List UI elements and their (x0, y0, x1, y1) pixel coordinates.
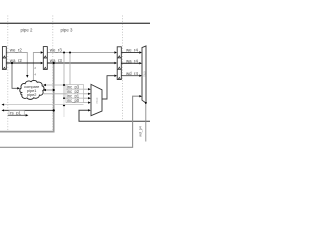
wire inc_p0 (66, 102, 88, 104)
arrow into mux2 inc_p1 (88, 97, 91, 99)
arrow into cloud right y85 (43, 84, 46, 86)
arrow into mux1 wa (139, 62, 142, 64)
svg-text:we_r2: we_r2 (10, 47, 23, 52)
svg-text:we_r3: we_r3 (50, 47, 63, 52)
arrow into mux2 inc_p2 (88, 93, 91, 95)
arrow into mux2 inc_p3 (88, 88, 91, 90)
stage boundary dashed line pipe4 (122, 16, 124, 120)
register R3 (43, 47, 47, 70)
label box inc_p1 (66, 94, 84, 98)
arrow into cloud left (17, 87, 20, 89)
junction dot x64 y85 (63, 84, 65, 86)
arrow into cloud right y90 (43, 89, 46, 91)
svg-text:wd_r4: wd_r4 (126, 71, 139, 76)
wire rs_p1 (8, 114, 26, 116)
svg-text:pipe2: pipe2 (27, 92, 37, 97)
label box inc_p0 (66, 98, 84, 102)
svg-text:we_r4: we_r4 (126, 47, 139, 52)
arrow out left y110.4 (2, 109, 5, 111)
svg-text:wa_r2: wa_r2 (10, 58, 23, 63)
wire we_r3 (R3 to R4) (47, 52, 114, 54)
arrow into R3 wa (41, 62, 44, 64)
arrow into R4 wa (114, 62, 117, 64)
wire we to R3 (from cloud riser) (33, 53, 40, 81)
svg-text:pipe 3: pipe 3 (61, 28, 74, 33)
arrow into mux1 y96.2 (139, 95, 142, 97)
arrow into mux1 we (139, 51, 142, 53)
mux1 (142, 46, 146, 103)
wire wa_r2 (R2 to R3) (6, 62, 40, 64)
junction dot x64 top (63, 52, 65, 54)
register R4 (117, 47, 121, 80)
svg-text:wa_r3: wa_r3 (50, 58, 63, 63)
wire wd return (right edge into mux2 bottom) (79, 110, 150, 121)
wire x64 faint continuation (63, 98, 65, 117)
arrow out left y104.6 (2, 104, 5, 106)
svg-text:inc_p0: inc_p0 (67, 98, 80, 103)
label box inc_p3 (66, 85, 84, 90)
arrow into R3 we (41, 51, 44, 53)
wire we_r3 to compare cloud right (46, 84, 66, 86)
wire wa_r4 to mux1 (121, 62, 139, 64)
arrow into R4 wd (114, 75, 117, 77)
junction dot x64 y105.2 (63, 104, 65, 106)
label box inc_p2 (66, 89, 84, 94)
wire we_r3 vertical tap x64 into inc_p1 (64, 53, 88, 99)
wire wa_r3 to compare cloud right (46, 89, 54, 91)
arrow into R4 we (114, 51, 117, 53)
svg-text:rs_p1: rs_p1 (10, 111, 22, 116)
svg-text:pipe 2: pipe 2 (21, 28, 34, 33)
arrow into mux2 inc_p0 (88, 101, 91, 103)
wire mux1 output down (wd_p4) (145, 104, 147, 142)
wire wa writeback to left edge (4, 109, 54, 111)
register R2 (2, 47, 6, 70)
wire select faint (to mux2) (4, 104, 83, 106)
junction dot x64 y98.2 (63, 97, 65, 99)
wire we_r4 to mux1 (121, 52, 139, 54)
mux2 (91, 84, 102, 115)
wire wa_r3 thick vertical tap (to cloud / bottom-left bus) (0, 63, 54, 132)
junction dot V1 y110.4 (53, 109, 55, 111)
wire inc_p3 tap x70 (70, 53, 88, 90)
svg-text:wd_p4: wd_p4 (139, 126, 143, 137)
svg-text:mux: mux (142, 71, 146, 77)
mux1 output tip arrow (145, 102, 147, 104)
wire mux2 output to R4 wd (102, 76, 114, 99)
wire we_r2 (R2 to cloud corner) (6, 53, 27, 76)
junction dot wa_r3 tap (53, 62, 55, 64)
arrow into mux2 bottom (88, 109, 91, 111)
svg-text:wa_r4: wa_r4 (126, 58, 139, 63)
label box rs_p1 (9, 111, 24, 116)
svg-text:mux: mux (95, 97, 99, 103)
junction dot V1 y90 (53, 89, 55, 91)
junction dot x70 top (69, 52, 71, 54)
top rule (0, 22, 150, 24)
wire wa_r3 (R3 to R4) (47, 62, 114, 64)
stage boundary dashed line pipe3 (52, 16, 54, 131)
wire wd_r4 to mux1 (121, 75, 139, 77)
compare cloud (20, 80, 44, 99)
junction dot wa_r2 tap (11, 62, 13, 64)
stage boundary dashed line pipe2 (7, 16, 9, 131)
wire wd_p4 bottom bus (0, 96, 139, 147)
wire inc_p2 (from compare cloud) (44, 93, 88, 95)
arrow into mux1 wd (139, 75, 142, 77)
wire wa_r2 tap down to compare cloud left (12, 63, 17, 88)
arrow rs_p1 (26, 114, 29, 116)
arrow into cloud top x27.3 (26, 75, 28, 78)
